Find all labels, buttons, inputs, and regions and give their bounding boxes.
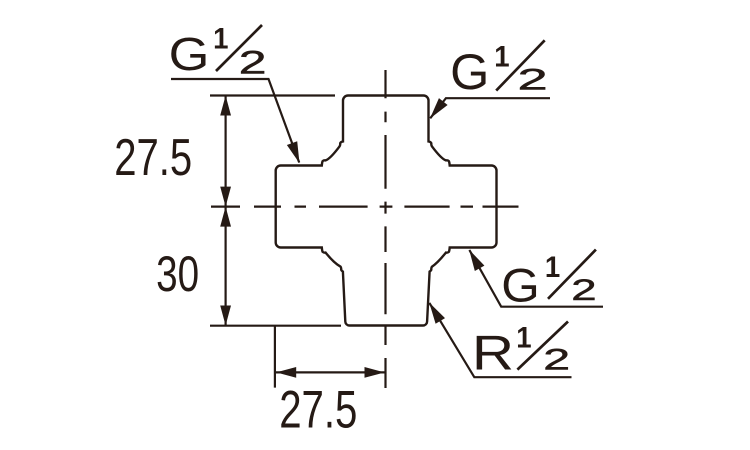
svg-text:1: 1	[545, 251, 560, 284]
svg-text:27.5: 27.5	[114, 129, 192, 187]
svg-text:R: R	[472, 327, 514, 381]
svg-text:30: 30	[156, 246, 199, 302]
svg-text:2: 2	[517, 63, 547, 97]
svg-text:1: 1	[516, 321, 531, 354]
svg-text:1: 1	[213, 23, 228, 56]
svg-text:27.5: 27.5	[279, 381, 357, 440]
svg-text:G: G	[501, 258, 540, 311]
svg-text:2: 2	[571, 274, 596, 307]
svg-text:1: 1	[494, 40, 509, 73]
svg-text:2: 2	[239, 45, 267, 81]
svg-text:2: 2	[543, 343, 570, 377]
svg-text:G: G	[450, 44, 489, 100]
svg-text:G: G	[169, 28, 210, 80]
